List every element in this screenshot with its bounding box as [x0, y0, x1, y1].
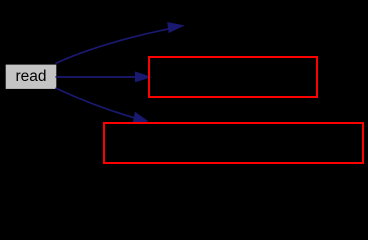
node middle (red bordered, truncated): [149, 57, 317, 97]
node bottom (red bordered, truncated): [104, 123, 363, 163]
wire edge from read to top node (curved): [56, 29, 169, 64]
wire edge from read to bottom red node (curved): [56, 88, 135, 118]
arrowhead of bottom edge: [133, 112, 148, 123]
svg-text:read: read: [15, 68, 46, 85]
arrowhead of middle edge: [135, 72, 151, 82]
node read (current node, grey filled): [6, 65, 57, 89]
arrowhead of top edge: [168, 22, 184, 32]
wire edge from read to middle red node (horizontal): [56, 76, 137, 78]
